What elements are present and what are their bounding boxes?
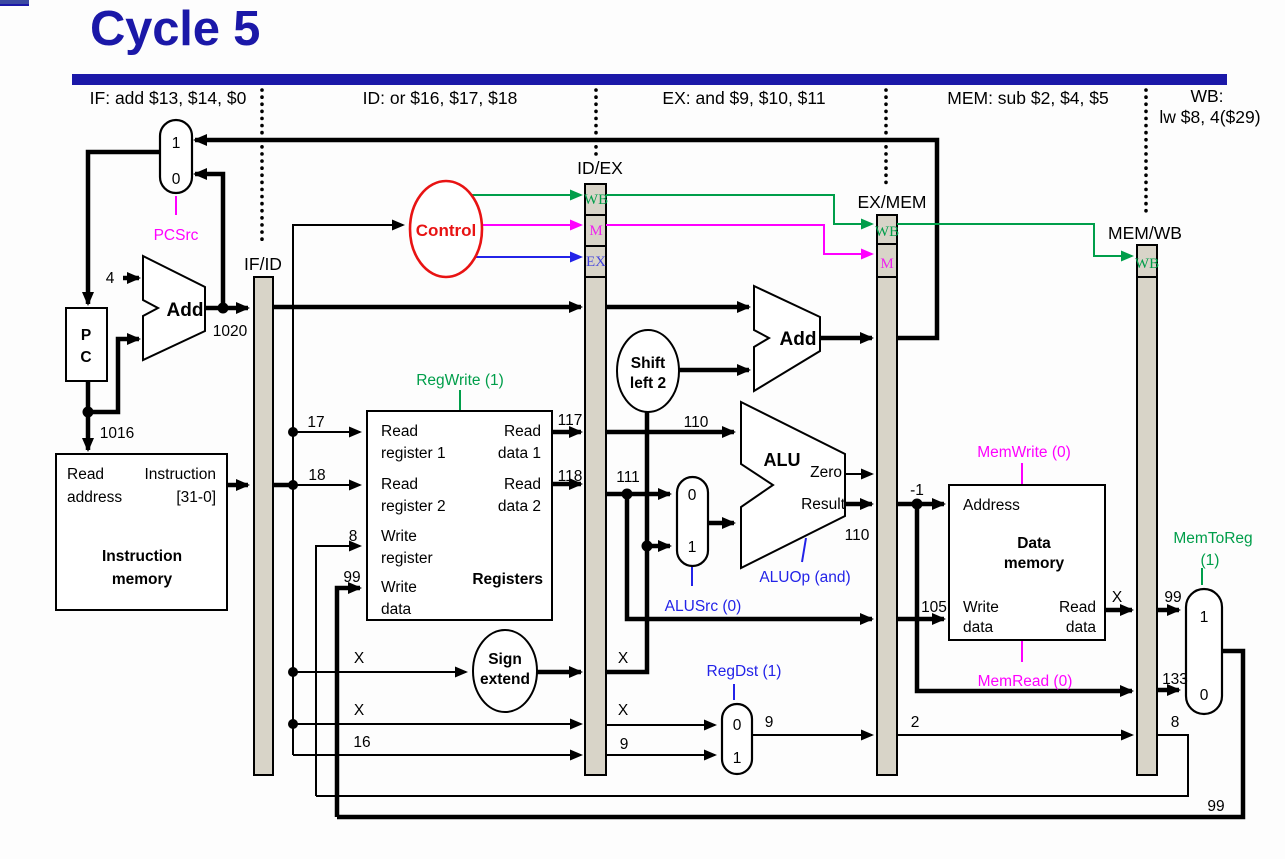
svg-text:register: register [381,550,433,567]
stage divider dotted line 1 [260,90,264,245]
sign extend ellipse [473,630,537,712]
svg-text:Cycle 5: Cycle 5 [90,2,260,56]
svg-text:Address: Address [963,497,1020,514]
svg-text:Add: Add [167,300,204,321]
ALUOp tick [802,538,806,562]
wire WB green ID/EX to EX/MEM [606,195,872,224]
svg-text:117: 117 [558,412,583,429]
wire write register 8 loop from MEM/WB to bottom [316,735,1188,796]
slide corner decoration [0,0,29,6]
svg-text:WB:: WB: [1190,86,1223,106]
svg-text:Zero: Zero [810,464,842,481]
wire Shift left 2 output to branch Add [679,368,749,373]
svg-text:data 2: data 2 [498,498,541,515]
svg-text:Read: Read [1059,599,1096,616]
wire Control EX blue into ID/EX [474,256,581,258]
wire write register 2 into MEM/WB [897,734,1132,736]
junction node 1020 [218,303,229,314]
PCSrc control tick [175,196,177,215]
svg-text:111: 111 [616,469,640,486]
svg-text:Read: Read [381,476,418,493]
RegDst tick [733,684,735,700]
svg-text:18: 18 [308,467,325,484]
svg-text:MemWrite (0): MemWrite (0) [977,444,1071,461]
wire write data 105 into Data memory [897,617,944,622]
svg-text:C: C [80,349,91,366]
wire 99 from MEM/WB into MemToReg mux 1 [1157,608,1179,613]
ALU [741,402,846,568]
wire immediate branch to ALUSrc mux 1 [647,544,670,549]
wire M magenta ID/EX to EX/MEM [606,225,872,254]
svg-text:data: data [381,601,412,618]
svg-text:99: 99 [1164,589,1181,606]
wire ALU result -1 into Data memory address [897,502,944,507]
wire rs field 17 into Registers [293,431,360,433]
svg-text:133: 133 [1162,671,1188,688]
wire Control WB green into ID/EX [468,194,581,196]
control unit ellipse [410,181,482,277]
svg-text:Result: Result [801,496,846,513]
wire write register 8 loopback into Registers [316,546,360,796]
pipeline register ID/EX [577,158,623,775]
svg-text:0: 0 [1200,687,1209,704]
svg-text:left 2: left 2 [630,375,666,392]
svg-text:IF/ID: IF/ID [244,254,282,274]
ALUSrc tick [691,567,693,586]
registers box [367,411,552,620]
junction 111 [622,489,633,500]
RegWrite tick [459,390,461,410]
svg-text:0: 0 [688,487,697,504]
svg-text:RegWrite (1): RegWrite (1) [416,372,504,389]
junction field X [288,719,298,729]
svg-text:IF: add $13, $14, $0: IF: add $13, $14, $0 [90,88,247,108]
mux PCSrc [160,120,192,193]
svg-text:1: 1 [688,539,697,556]
wire Add output 1020 into IF/ID [205,306,248,311]
svg-text:17: 17 [307,414,324,431]
svg-text:EX: and $9, $10, $11: EX: and $9, $10, $11 [662,88,825,108]
MemWrite tick [1021,463,1023,484]
svg-text:P: P [81,327,91,344]
wire Sign extend output into ID/EX [537,670,581,675]
wire ALUSrc mux output to ALU [708,521,734,526]
svg-text:8: 8 [349,528,358,545]
svg-text:MEM/WB: MEM/WB [1108,223,1182,243]
adder Add (PC+4) [143,256,205,360]
svg-text:MEM: sub $2, $4, $5: MEM: sub $2, $4, $5 [947,88,1108,108]
stage divider dotted line 2 [594,90,598,155]
instruction memory box [56,454,227,610]
svg-text:Control: Control [416,221,476,240]
wire rt field 18 into Registers [293,484,360,486]
stage label WB [1159,86,1260,127]
svg-text:110: 110 [684,414,709,431]
wire Control M magenta into ID/EX [482,224,581,226]
svg-text:-1: -1 [910,482,924,499]
svg-text:memory: memory [112,571,173,588]
junction PC value node 1016 [83,407,94,418]
wire Read data 1 (110) to ALU [606,430,734,435]
wire RegDst mux output into EX/MEM [752,734,872,736]
junction result -1 [912,499,923,510]
svg-text:1: 1 [1200,609,1209,626]
title underline bar [72,74,1227,85]
wire PC mux output to PC [88,152,160,304]
svg-text:2: 2 [911,714,920,731]
svg-text:data 1: data 1 [498,445,541,462]
label MemToReg (1) [1173,530,1252,569]
svg-text:0: 0 [733,717,742,734]
wire WB green EX/MEM to MEM/WB [897,224,1132,256]
wire X row to RegDst mux 0 [606,724,715,726]
adder Add (branch) [754,286,820,391]
svg-text:Read: Read [381,423,418,440]
svg-text:1: 1 [733,750,742,767]
svg-text:X: X [618,702,629,719]
svg-text:Instruction: Instruction [102,548,182,565]
wire 9 row to RegDst mux 1 [606,754,715,756]
svg-text:ALUOp (and): ALUOp (and) [759,569,850,586]
svg-text:16: 16 [353,734,370,751]
svg-text:0: 0 [172,171,181,188]
mux MemToReg [1186,589,1222,714]
svg-text:1: 1 [172,135,181,152]
svg-text:[31-0]: [31-0] [176,489,216,506]
junction immediate [288,667,298,677]
shift left 2 ellipse [617,330,679,412]
wire PC+4 feedback to PC mux input 0 [195,174,223,308]
wire PC output down to instruction memory [86,381,91,450]
svg-text:Instruction: Instruction [144,466,216,483]
svg-text:99: 99 [1207,798,1224,815]
svg-text:Shift: Shift [631,355,665,372]
wire ALU result bypass down into MEM/WB [917,504,1132,691]
junction rt 18 [288,480,298,490]
wire branch target from EX/MEM back to PC mux input 1 [195,140,937,338]
wire PC value to Add lower input [88,339,139,412]
wire field 16 row into ID/EX [293,754,581,756]
wire immediate from ID/EX up to Shift left 2 [606,412,647,672]
svg-text:ALU: ALU [764,450,801,470]
stage divider dotted line 4 [1144,90,1148,215]
svg-text:data: data [1066,619,1097,636]
svg-text:register 2: register 2 [381,498,446,515]
svg-text:WB: WB [584,192,608,208]
svg-text:Read: Read [504,423,541,440]
mux ALUSrc [677,477,708,566]
svg-text:Sign: Sign [488,651,522,668]
svg-text:8: 8 [1171,714,1180,731]
MemToReg tick [1201,568,1203,585]
wire MemToReg mux output 99 loop to bottom [337,651,1243,817]
wire PC+4 to branch Add [606,305,749,310]
svg-text:MemRead (0): MemRead (0) [978,673,1073,690]
svg-text:Read: Read [504,476,541,493]
svg-text:data: data [963,619,994,636]
svg-text:9: 9 [620,736,629,753]
wire Read data 2 down to EX/MEM write data [627,494,872,619]
svg-text:MemToReg: MemToReg [1173,530,1252,547]
svg-text:Add: Add [780,329,817,350]
svg-text:1020: 1020 [213,323,248,340]
svg-text:M: M [880,256,893,272]
pipeline register MEM/WB [1108,223,1182,775]
svg-text:extend: extend [480,671,530,688]
wire 133 from MEM/WB into MemToReg mux 0 [1157,688,1179,693]
svg-text:register 1: register 1 [381,445,446,462]
svg-text:99: 99 [343,569,360,586]
wire write data 99 loopback into Registers [337,588,360,817]
svg-text:1016: 1016 [100,425,134,442]
svg-text:ID: or $16, $17, $18: ID: or $16, $17, $18 [363,88,518,108]
svg-text:M: M [589,223,602,239]
wire instruction field vertical bus [293,225,403,755]
wire constant 4 into Add [123,276,139,281]
svg-text:110: 110 [845,527,870,544]
svg-text:lw $8, 4($29): lw $8, 4($29) [1159,107,1260,127]
pipeline register EX/MEM [857,192,926,775]
junction immediate to mux [642,541,653,552]
svg-text:WB: WB [875,224,899,240]
svg-text:Write: Write [381,528,417,545]
wire instruction from IF/ID to field bus [273,483,293,488]
data memory box [949,485,1105,640]
svg-text:9: 9 [765,714,774,731]
wire Read data 2 (111) to ALUSrc mux 0 [606,492,670,497]
wire Read data 2 into ID/EX [552,482,581,487]
wire PC+4 from IF/ID to ID/EX [273,305,581,310]
svg-text:WB: WB [1135,256,1159,272]
svg-text:Write: Write [963,599,999,616]
wire ALU Result into EX/MEM [845,502,872,507]
svg-text:X: X [354,650,365,667]
MemRead tick [1021,641,1023,662]
wire field X row into ID/EX [293,723,581,725]
svg-text:Write: Write [381,579,417,596]
wire instruction memory output into IF/ID [227,483,248,488]
svg-text:118: 118 [558,468,583,485]
junction rs 17 [288,427,298,437]
mux RegDst [722,704,752,774]
svg-text:EX: EX [586,254,606,270]
svg-text:memory: memory [1004,555,1065,572]
svg-text:RegDst (1): RegDst (1) [707,663,782,680]
svg-text:ALUSrc (0): ALUSrc (0) [665,598,742,615]
svg-text:X: X [1112,589,1123,606]
svg-text:Read: Read [67,466,104,483]
stage divider dotted line 3 [884,90,888,187]
wire Data memory read data X into MEM/WB [1105,608,1132,613]
svg-text:X: X [618,650,629,667]
wire Read data 1 into ID/EX [552,430,581,435]
svg-text:ID/EX: ID/EX [577,158,623,178]
svg-text:X: X [354,702,365,719]
wire branch Add output into EX/MEM [820,336,872,341]
pipeline register IF/ID [244,254,282,775]
svg-text:(1): (1) [1201,552,1220,569]
svg-text:address: address [67,489,122,506]
register PC [66,308,107,381]
wire ALU Zero into EX/MEM [845,473,872,475]
svg-text:Data: Data [1017,535,1051,552]
svg-text:EX/MEM: EX/MEM [857,192,926,212]
wire immediate X into Sign extend [293,671,466,673]
svg-text:PCSrc: PCSrc [154,227,199,244]
svg-text:Registers: Registers [472,571,543,588]
svg-text:105: 105 [921,599,947,616]
svg-text:4: 4 [106,270,115,287]
